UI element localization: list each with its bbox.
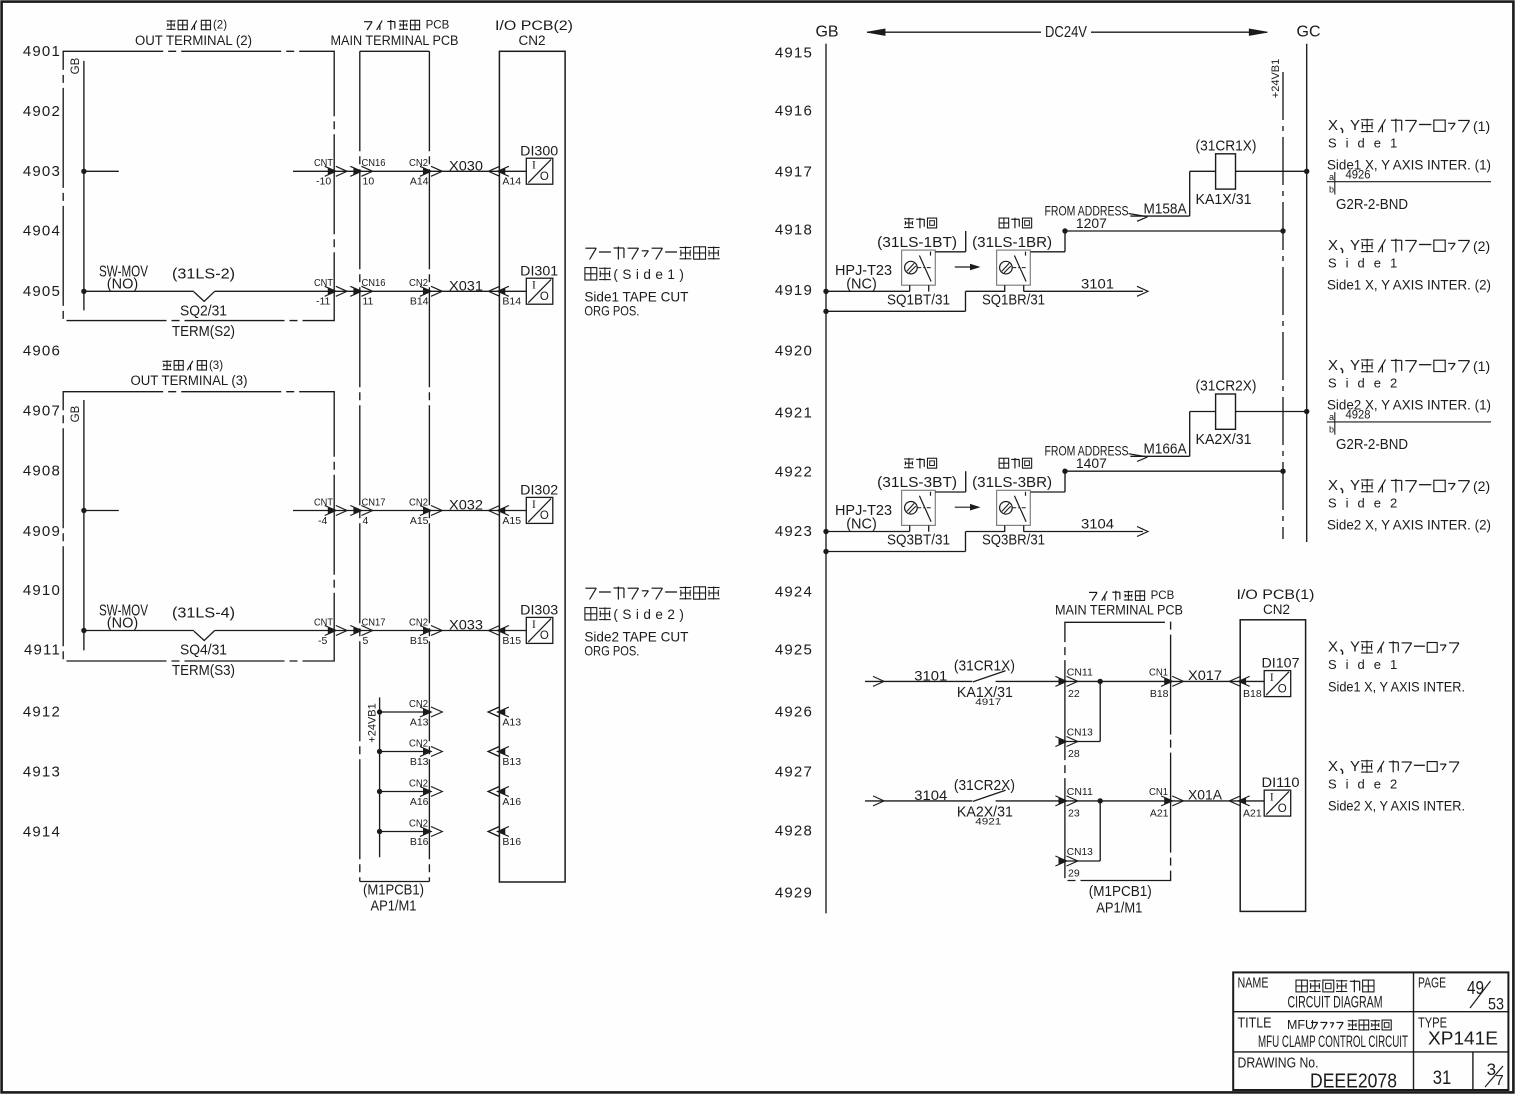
wire X017 to I/O PCB bbox=[1171, 676, 1250, 686]
svg-text:CN2: CN2 bbox=[518, 33, 545, 48]
svg-text:O: O bbox=[540, 510, 549, 522]
node branch 3101 bbox=[1098, 679, 1103, 684]
wire +24VB1 to CN2 B13 bbox=[380, 747, 443, 757]
svg-text:4921: 4921 bbox=[775, 405, 813, 422]
svg-text:4901: 4901 bbox=[23, 43, 61, 60]
OUT TERMINAL (3) header bbox=[131, 360, 248, 388]
node on GB at 4905 bbox=[81, 289, 86, 294]
svg-text:TITLE: TITLE bbox=[1238, 1015, 1272, 1032]
wire X033 into DI303 bbox=[499, 630, 526, 632]
annotation Side2 tape cut org pos bbox=[584, 587, 719, 659]
svg-text:4926: 4926 bbox=[775, 704, 813, 721]
wire coil KA1X/31 to GC bbox=[1236, 170, 1307, 172]
svg-text:G2R-2-BND: G2R-2-BND bbox=[1336, 197, 1408, 213]
svg-text:(2): (2) bbox=[213, 20, 227, 32]
photo sensor SQ3BR 31LS-3BR bbox=[972, 458, 1052, 549]
label (31LS-4) bbox=[172, 605, 235, 622]
node branch 3104 bbox=[1098, 798, 1103, 803]
svg-text:4906: 4906 bbox=[23, 343, 61, 360]
svg-text:O: O bbox=[1278, 803, 1287, 815]
wire into DI107 bbox=[1240, 680, 1264, 682]
svg-text:CN2: CN2 bbox=[409, 496, 428, 508]
svg-text:(2): (2) bbox=[1473, 478, 1490, 494]
svg-text:CN2: CN2 bbox=[409, 777, 428, 789]
svg-text:28: 28 bbox=[1068, 748, 1080, 760]
svg-text:Side2: Side2 bbox=[1328, 496, 1406, 511]
svg-text:53: 53 bbox=[1488, 995, 1504, 1014]
svg-text:4926: 4926 bbox=[1346, 170, 1371, 182]
wire contact to CN11 bbox=[996, 676, 1078, 686]
svg-text:+24VB1: +24VB1 bbox=[1270, 59, 1282, 98]
node +24VB1 at 1207 bbox=[1280, 228, 1285, 233]
svg-text:CIRCUIT DIAGRAM: CIRCUIT DIAGRAM bbox=[1288, 994, 1383, 1012]
svg-text:4910: 4910 bbox=[23, 582, 61, 599]
wire GB to sensor SQ1BT bbox=[826, 290, 910, 292]
svg-text:X: X bbox=[1328, 477, 1338, 494]
svg-text:I: I bbox=[1270, 672, 1274, 684]
signal label X033 bbox=[449, 618, 483, 633]
svg-text:Y: Y bbox=[1350, 639, 1360, 656]
svg-text:+24VB1: +24VB1 bbox=[367, 703, 379, 742]
svg-text:A15: A15 bbox=[410, 515, 429, 527]
svg-text:AP1/M1: AP1/M1 bbox=[1096, 900, 1142, 916]
svg-text:I: I bbox=[532, 499, 536, 511]
pin label CNT -10 bbox=[314, 157, 334, 188]
svg-text:CN11: CN11 bbox=[1067, 667, 1093, 679]
label SQ2/31 bbox=[180, 303, 227, 320]
node on GB at 4910/4911 bbox=[81, 628, 86, 633]
wire CN11 to CN1 bbox=[1065, 796, 1184, 806]
wire X030 into DI300 bbox=[499, 170, 526, 172]
DC24V span arrow bbox=[867, 24, 1267, 41]
wire sensor SQ1BR to 1207 junction bbox=[1031, 231, 1065, 252]
wire 1207 row bbox=[1065, 230, 1283, 232]
svg-text:O: O bbox=[540, 630, 549, 642]
svg-text:Side2 X, Y AXIS INTER. (2): Side2 X, Y AXIS INTER. (2) bbox=[1327, 518, 1491, 533]
connector arrow into I/O PCB A15 bbox=[488, 506, 521, 527]
pin label CN13 29 bbox=[1067, 846, 1093, 879]
pin label A21 (I/O side) bbox=[1243, 807, 1262, 819]
svg-text:B14: B14 bbox=[410, 296, 429, 308]
svg-text:GB: GB bbox=[70, 57, 82, 74]
svg-text:4903: 4903 bbox=[23, 163, 61, 180]
svg-text:(2): (2) bbox=[1473, 238, 1490, 254]
I/O input DI107 bbox=[1262, 656, 1300, 697]
wire 4903 stub from GB bbox=[84, 170, 119, 172]
svg-text:I: I bbox=[1270, 792, 1274, 804]
annotation X Y axis interlock Side2 (2) bbox=[1327, 477, 1491, 533]
svg-text:4912: 4912 bbox=[23, 704, 61, 721]
label 3104 bbox=[914, 787, 947, 803]
svg-text:(1): (1) bbox=[1473, 358, 1490, 374]
I/O input DI300 bbox=[520, 143, 558, 184]
pin label CN16 11 bbox=[362, 277, 386, 308]
svg-text:CN2: CN2 bbox=[409, 817, 428, 829]
svg-text:CN11: CN11 bbox=[1067, 786, 1093, 798]
svg-text:4919: 4919 bbox=[775, 282, 813, 299]
pin label CN2 B16 (left) bbox=[409, 817, 429, 848]
svg-text:CN13: CN13 bbox=[1067, 846, 1093, 858]
svg-text:Y: Y bbox=[1350, 357, 1360, 374]
svg-text:GB: GB bbox=[70, 405, 82, 422]
wire GB lower to sensor SQ3BR bbox=[826, 532, 1005, 552]
svg-text:(M1PCB1): (M1PCB1) bbox=[1089, 884, 1152, 900]
label HPJ-T23 (NC) bbox=[835, 502, 892, 533]
svg-text:4913: 4913 bbox=[23, 764, 61, 781]
svg-text:Side1 X, Y AXIS INTER. (2): Side1 X, Y AXIS INTER. (2) bbox=[1327, 278, 1491, 293]
svg-text:Side2 X, Y AXIS INTER.: Side2 X, Y AXIS INTER. bbox=[1328, 799, 1465, 814]
photo sensor SQ3BT 31LS-3BT bbox=[877, 458, 957, 549]
connector arrow into I/O PCB B14 bbox=[488, 286, 521, 307]
annotation X Y axis interlock Side1 (2) bbox=[1327, 237, 1491, 293]
svg-text:X032: X032 bbox=[449, 498, 483, 513]
wire 4905 from GB to switch bbox=[84, 290, 194, 292]
svg-text:DEEE2078: DEEE2078 bbox=[1310, 1071, 1397, 1093]
svg-text:4907: 4907 bbox=[23, 403, 61, 420]
svg-text:TERM(S3): TERM(S3) bbox=[172, 662, 235, 679]
svg-text:3104: 3104 bbox=[914, 787, 947, 803]
svg-text:KA1X/31: KA1X/31 bbox=[1196, 191, 1252, 208]
pin label CN2 A14 bbox=[409, 157, 429, 188]
svg-text:b: b bbox=[1329, 425, 1334, 435]
pin label CN2 A16 (left) bbox=[409, 777, 429, 808]
label (M1PCB1) AP1/M1 (bottom) bbox=[1089, 884, 1152, 916]
label SQ4/31 bbox=[180, 642, 227, 659]
svg-text:(31CR2X): (31CR2X) bbox=[954, 777, 1015, 794]
svg-text:CNT: CNT bbox=[314, 616, 334, 628]
svg-text:4917: 4917 bbox=[775, 164, 813, 181]
svg-text:X033: X033 bbox=[449, 618, 483, 633]
MAIN TERMINAL PCB columns bbox=[360, 51, 430, 881]
svg-text:SQ2/31: SQ2/31 bbox=[180, 303, 227, 320]
svg-text:4922: 4922 bbox=[775, 464, 813, 481]
I/O PCB(1) box (bottom) bbox=[1240, 620, 1305, 912]
label 1207 bbox=[1076, 215, 1107, 231]
svg-text:A13: A13 bbox=[502, 716, 521, 728]
annotation X Y axis interlock Side2 (bottom) bbox=[1328, 758, 1465, 814]
wire 4905 switch to CNT-11 bbox=[215, 286, 347, 296]
pin label CN17 5 bbox=[362, 616, 386, 647]
wire sensor SQ1BT to 1207 row bbox=[935, 231, 965, 252]
node +24VB1 at A16 bbox=[377, 789, 382, 794]
svg-text:4920: 4920 bbox=[775, 343, 813, 360]
svg-text:X: X bbox=[1328, 357, 1338, 374]
svg-text:KA2X/31: KA2X/31 bbox=[1196, 431, 1252, 448]
svg-text:PAGE: PAGE bbox=[1418, 975, 1446, 992]
net +24VB1 bus (left) bbox=[379, 697, 381, 857]
svg-text:(NO): (NO) bbox=[107, 616, 138, 632]
connector arrow into I/O PCB B13 bbox=[488, 747, 509, 757]
svg-text:MAIN TERMINAL PCB: MAIN TERMINAL PCB bbox=[331, 33, 459, 48]
title block DRAWING No cell bbox=[1238, 1055, 1504, 1093]
pin label CN2 B15 bbox=[409, 616, 429, 647]
svg-text:(Side1): (Side1) bbox=[613, 267, 688, 282]
svg-text:DI107: DI107 bbox=[1262, 656, 1300, 671]
wire output 3101 bbox=[1024, 286, 1148, 296]
wire CN11 to CN1 bbox=[1065, 676, 1184, 686]
svg-text:3104: 3104 bbox=[1081, 516, 1114, 532]
svg-text:XP141E: XP141E bbox=[1428, 1029, 1498, 1049]
svg-text:b: b bbox=[1329, 185, 1334, 195]
OUT TERMINAL (2) header bbox=[135, 20, 252, 49]
svg-text:3101: 3101 bbox=[914, 667, 947, 683]
signal label X030 bbox=[449, 158, 483, 173]
annotation X Y axis interlock Side2 (1) bbox=[1327, 357, 1491, 413]
svg-text:A14: A14 bbox=[410, 176, 429, 188]
annotation X Y axis interlock Side1 (1) bbox=[1327, 117, 1491, 173]
svg-text:(31CR1X): (31CR1X) bbox=[954, 658, 1015, 675]
svg-text:4915: 4915 bbox=[775, 45, 813, 62]
svg-text:B15: B15 bbox=[410, 635, 429, 647]
svg-text:SQ4/31: SQ4/31 bbox=[180, 642, 227, 659]
svg-text:X: X bbox=[1328, 117, 1338, 134]
relay coil KA2X/31 (31CR2X) bbox=[1196, 378, 1257, 449]
node GB sensor feed side1 bbox=[823, 289, 828, 294]
label TERM(S3) bbox=[172, 662, 235, 679]
label G2R-2-BND bbox=[1336, 197, 1408, 213]
pin label B18 (I/O side) bbox=[1243, 688, 1262, 700]
pin label CNT -11 bbox=[314, 277, 334, 308]
svg-text:DI110: DI110 bbox=[1262, 775, 1300, 790]
svg-text:CN17: CN17 bbox=[362, 496, 386, 508]
arrow between sensors side2 bbox=[955, 505, 979, 510]
svg-text:MFU CLAMP CONTROL CIRCUIT: MFU CLAMP CONTROL CIRCUIT bbox=[1258, 1033, 1408, 1051]
svg-text:CN13: CN13 bbox=[1067, 727, 1093, 739]
svg-text:(31LS-1BR): (31LS-1BR) bbox=[972, 234, 1052, 251]
svg-text:B15: B15 bbox=[502, 635, 521, 647]
label 3104 bbox=[1081, 516, 1114, 532]
node +24VB1 at A13 bbox=[377, 709, 382, 714]
wire GB to sensor SQ3BT bbox=[826, 531, 910, 533]
wire X01A to I/O PCB bbox=[1171, 796, 1250, 806]
wire +24VB1 to CN2 A16 bbox=[380, 787, 443, 797]
net +24VB1 label (left) bbox=[367, 703, 379, 742]
wire branch to CN13 bbox=[1055, 801, 1100, 866]
svg-text:GB: GB bbox=[815, 24, 838, 41]
arrow between sensors side1 bbox=[955, 264, 979, 269]
svg-text:4914: 4914 bbox=[23, 824, 61, 841]
svg-text:(31LS-4): (31LS-4) bbox=[172, 605, 235, 622]
node +24VB1 at B16 bbox=[377, 829, 382, 834]
svg-text:I: I bbox=[532, 160, 536, 172]
svg-text:(31LS-3BR): (31LS-3BR) bbox=[972, 474, 1052, 491]
svg-text:4927: 4927 bbox=[775, 764, 813, 781]
svg-text:DRAWING No.: DRAWING No. bbox=[1238, 1055, 1319, 1072]
svg-text:I/O PCB(2): I/O PCB(2) bbox=[495, 18, 573, 33]
svg-text:CN2: CN2 bbox=[1263, 602, 1290, 617]
svg-text:CNT: CNT bbox=[314, 496, 334, 508]
label SW-MOV (NO) block3 bbox=[99, 603, 148, 632]
svg-text:CN1: CN1 bbox=[1149, 786, 1168, 798]
svg-text:I: I bbox=[532, 280, 536, 292]
MAIN TERMINAL PCB header (bottom) bbox=[1055, 590, 1183, 617]
wire X031 into DI301 bbox=[499, 290, 526, 292]
wire 4908 CN17 to CN2 bbox=[334, 506, 499, 516]
I/O input DI302 bbox=[520, 483, 558, 524]
svg-text:4928: 4928 bbox=[1346, 410, 1371, 422]
annotation X Y axis interlock Side1 (bottom) bbox=[1328, 639, 1465, 695]
svg-text:Side2: Side2 bbox=[1328, 376, 1406, 391]
cross-reference 4926 bbox=[1327, 170, 1491, 195]
annotation Side1 tape cut org pos bbox=[584, 247, 719, 319]
pin label CN11 22 bbox=[1067, 667, 1093, 700]
connector arrow into I/O PCB A13 bbox=[488, 707, 509, 717]
wire sensor SQ3BT to 1407 row bbox=[935, 471, 965, 492]
connector arrow into I/O PCB A16 bbox=[488, 787, 509, 797]
svg-text:CN1: CN1 bbox=[1149, 667, 1168, 679]
net +24VB1 rail (right) bbox=[1282, 72, 1284, 539]
svg-text:SQ3BR/31: SQ3BR/31 bbox=[982, 532, 1045, 549]
svg-text:X030: X030 bbox=[449, 158, 483, 173]
svg-text:B14: B14 bbox=[502, 296, 521, 308]
svg-text:(Side2): (Side2) bbox=[613, 607, 688, 622]
svg-text:OUT TERMINAL (3): OUT TERMINAL (3) bbox=[131, 373, 248, 388]
svg-text:4902: 4902 bbox=[23, 103, 61, 120]
svg-text:CN16: CN16 bbox=[362, 277, 386, 289]
wire branch to CN13 bbox=[1055, 681, 1100, 746]
node on GB at 4903 bbox=[81, 169, 86, 174]
node 1407 junction bbox=[1062, 469, 1067, 474]
svg-text:SQ1BT/31: SQ1BT/31 bbox=[887, 292, 950, 309]
svg-text:-10: -10 bbox=[316, 176, 331, 188]
label (31LS-2) bbox=[172, 266, 235, 283]
svg-text:Side1: Side1 bbox=[1328, 657, 1406, 672]
svg-text:CN16: CN16 bbox=[362, 157, 386, 169]
limit switch SQ4/31 (31LS-4) SW-MOV NO bbox=[194, 631, 215, 641]
svg-text:(31CR2X): (31CR2X) bbox=[1196, 378, 1257, 395]
wire sensor SQ3BR to 1407 junction bbox=[1031, 471, 1065, 492]
svg-text:-11: -11 bbox=[316, 296, 331, 308]
net GB rail (block 2) bbox=[83, 61, 85, 311]
MAIN TERMINAL PCB header bbox=[331, 20, 459, 49]
signal label X032 bbox=[449, 498, 483, 513]
title block TYPE cell bbox=[1418, 1015, 1498, 1049]
svg-text:1207: 1207 bbox=[1076, 215, 1107, 231]
svg-text:A16: A16 bbox=[502, 796, 521, 808]
wire +24VB1 to CN2 A13 bbox=[380, 707, 443, 717]
svg-text:Side2: Side2 bbox=[1328, 776, 1406, 791]
svg-text:GC: GC bbox=[1297, 24, 1321, 41]
right line-number labels 4915-4929 bbox=[775, 45, 813, 902]
svg-text:(NO): (NO) bbox=[107, 276, 138, 292]
svg-text:AP1/M1: AP1/M1 bbox=[371, 899, 417, 915]
pin label CN1 A21 bbox=[1149, 786, 1169, 819]
svg-text:X: X bbox=[1328, 758, 1338, 775]
pin label B13 (right) bbox=[502, 756, 521, 768]
signal label X017 bbox=[1188, 668, 1222, 683]
svg-text:10: 10 bbox=[363, 176, 375, 188]
svg-text:CN2: CN2 bbox=[409, 737, 428, 749]
wire 4910 from GB to switch bbox=[84, 630, 194, 632]
node 1207 junction bbox=[1062, 228, 1067, 233]
net GB label (right) bbox=[815, 24, 838, 41]
wire into DI110 bbox=[1240, 800, 1264, 802]
svg-text:Y: Y bbox=[1350, 237, 1360, 254]
svg-text:Side1 X, Y AXIS INTER.: Side1 X, Y AXIS INTER. bbox=[1328, 680, 1465, 695]
net GB (block 2) label bbox=[70, 57, 82, 74]
label 3101 bbox=[1081, 276, 1114, 292]
label (M1PCB1) AP1/M1 (left) bbox=[363, 883, 424, 915]
svg-text:A21: A21 bbox=[1150, 807, 1169, 819]
svg-text:a: a bbox=[1329, 172, 1334, 182]
label 1407 bbox=[1076, 455, 1107, 471]
svg-text:a: a bbox=[1329, 412, 1334, 422]
svg-text:(1): (1) bbox=[1473, 118, 1490, 134]
node GB lower feed side2 bbox=[823, 549, 828, 554]
svg-text:Y: Y bbox=[1350, 117, 1360, 134]
label SW-MOV (NO) bbox=[99, 264, 148, 293]
node GB sensor feed side2 bbox=[823, 529, 828, 534]
pin label A13 (right) bbox=[502, 716, 521, 728]
signal label X031 bbox=[449, 278, 483, 293]
svg-text:31: 31 bbox=[1433, 1068, 1452, 1089]
svg-text:-4: -4 bbox=[318, 515, 327, 527]
I/O input DI110 bbox=[1262, 775, 1300, 816]
svg-text:X: X bbox=[1328, 237, 1338, 254]
net GB rail (block 3) bbox=[83, 400, 85, 650]
label HPJ-T23 (NC) bbox=[835, 262, 892, 293]
limit switch SQ2/31 (31LS-2) SW-MOV NO bbox=[194, 291, 215, 301]
svg-text:1407: 1407 bbox=[1076, 455, 1107, 471]
node on GC at 31CR2X bbox=[1304, 409, 1309, 414]
svg-text:ORG POS.: ORG POS. bbox=[584, 643, 639, 659]
label 3101 bbox=[914, 667, 947, 683]
cross-reference 4928 bbox=[1327, 410, 1491, 435]
svg-text:X031: X031 bbox=[449, 278, 483, 293]
svg-text:B13: B13 bbox=[502, 756, 521, 768]
svg-text:7: 7 bbox=[1495, 1072, 1503, 1089]
title block TITLE cell bbox=[1238, 1015, 1409, 1052]
svg-text:MFU: MFU bbox=[1287, 1018, 1314, 1032]
OUT TERMINAL (3) box bbox=[63, 392, 334, 661]
svg-text:4928: 4928 bbox=[775, 823, 813, 840]
wire 4903 CN16 to CN2 bbox=[334, 166, 499, 176]
MAIN TERMINAL PCB box (bottom) bbox=[1065, 622, 1171, 880]
connector arrow into I/O PCB B16 bbox=[488, 827, 509, 837]
svg-text:CN2: CN2 bbox=[409, 157, 428, 169]
svg-text:A21: A21 bbox=[1243, 807, 1262, 819]
wire 4910 CN17 to CN2 bbox=[334, 626, 499, 636]
net GB (block 3) label bbox=[70, 405, 82, 422]
svg-text:4911: 4911 bbox=[24, 642, 61, 659]
relay contact KA1X/31 (31CR1X) bbox=[954, 658, 1015, 709]
svg-text:A15: A15 bbox=[502, 515, 521, 527]
svg-text:DI300: DI300 bbox=[520, 143, 558, 158]
relay contact KA2X/31 (31CR2X) bbox=[954, 777, 1015, 828]
label TERM(S2) bbox=[172, 323, 235, 340]
I/O input DI301 bbox=[520, 263, 558, 304]
wire X032 into DI302 bbox=[499, 510, 526, 512]
pin label CN11 23 bbox=[1067, 786, 1093, 819]
pin label CN2 A13 (left) bbox=[409, 698, 429, 729]
node on GC at 31CR1X bbox=[1304, 169, 1309, 174]
node +24VB1 at 1407 bbox=[1280, 469, 1285, 474]
wire +24VB1 to CN2 B16 bbox=[380, 827, 443, 837]
svg-text:G2R-2-BND: G2R-2-BND bbox=[1336, 437, 1408, 453]
svg-text:4925: 4925 bbox=[775, 642, 813, 659]
svg-text:Y: Y bbox=[1350, 758, 1360, 775]
relay coil KA1X/31 (31CR1X) bbox=[1196, 138, 1257, 209]
svg-text:4918: 4918 bbox=[775, 222, 813, 239]
svg-text:4905: 4905 bbox=[23, 283, 61, 300]
wire 4908 to OUT TERMINAL pin CNT-4 bbox=[293, 506, 347, 516]
wire 1407 row bbox=[1065, 470, 1283, 472]
svg-text:4908: 4908 bbox=[23, 463, 61, 480]
title block frame bbox=[1233, 972, 1508, 1090]
wire 3101 input bbox=[865, 676, 972, 686]
photo sensor SQ1BT 31LS-1BT bbox=[877, 218, 957, 309]
svg-text:PCB: PCB bbox=[426, 20, 450, 32]
